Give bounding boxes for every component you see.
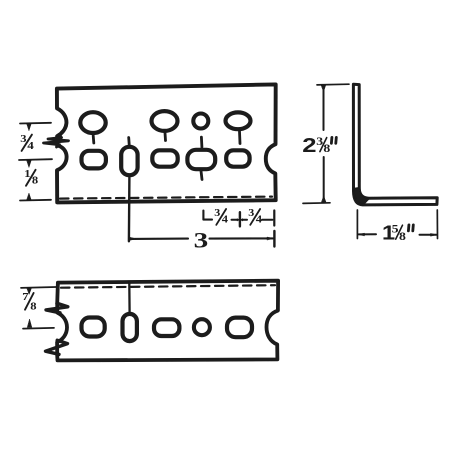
dimension 2-3/8 bottom tick: [322, 196, 327, 202]
centreline hole A3 to B4: [200, 137, 203, 147]
dimension 3 right flare: [267, 237, 274, 240]
dimension 2-3/8 bottom extension line: [303, 202, 330, 205]
tick on 7/8 top extension: [27, 288, 31, 294]
dimension 3/4+3/4 right segment and end bar: [262, 219, 273, 221]
angle profile (side view): [353, 84, 437, 205]
dimension 1-5/8 right flare: [431, 233, 437, 236]
svg-text:2: 2: [302, 133, 316, 156]
label 2-3/8": [302, 133, 330, 156]
bottom strip upper break spike: [46, 303, 68, 313]
label 3/4 (first, under plate): [214, 208, 228, 225]
angle profile bend (solid ink at corner): [354, 188, 370, 205]
hole B2 centreline down to dimension: [128, 177, 131, 241]
hole A1 (top row oval 1): [80, 112, 105, 133]
hole A2 tail: [164, 133, 167, 141]
dimension 2-3/8 top extension line: [317, 83, 349, 86]
extension line for 3/4 (upper): [20, 122, 51, 125]
hole B2 (vertical slot): [121, 147, 137, 175]
hole C2 centreline to top edge: [128, 283, 131, 312]
dimension 2-3/8 top tick: [321, 85, 325, 91]
dimension 1-5/8 line right segment: [420, 234, 437, 236]
svg-text:7: 7: [22, 291, 29, 303]
label 1/8 (left): [24, 168, 38, 186]
svg-text:8: 8: [323, 142, 330, 155]
dimension 3 right end bar: [273, 231, 275, 247]
top plate fold dashed line: [60, 197, 272, 199]
dimension 1-5/8 left flare: [358, 233, 364, 236]
hole B4 (bottom row obround 3): [187, 150, 215, 169]
dimension 2-3/8 line upper segment: [323, 86, 325, 130]
hole B5 (bottom row obround 4): [226, 150, 249, 166]
svg-text:8: 8: [30, 301, 37, 313]
svg-text:5: 5: [392, 223, 399, 236]
hole A4 tail: [238, 132, 241, 144]
label 7/8: [22, 291, 37, 312]
bottom strip fold dashed line: [61, 285, 275, 288]
label 3: [194, 228, 209, 253]
dimension 7/8 lower extension line: [23, 327, 54, 330]
label 1-5/8": [382, 221, 406, 244]
hole B2 centreline up: [127, 138, 130, 145]
dimension 1-5/8 line left segment: [359, 233, 377, 235]
svg-text:3: 3: [194, 228, 209, 253]
extension line for 3/4-1/8 (middle): [19, 158, 52, 161]
hole C2 (strip vertical slot): [123, 314, 137, 341]
dimension 3/4+3/4 centre tick: [239, 212, 241, 226]
dimension 1-5/8 left extension line: [356, 210, 358, 239]
tick on lower extension: [27, 193, 31, 200]
dimension 3/4+3/4 left L-tick: [203, 211, 212, 220]
extension line for 1/8 (lower, at bottom edge): [20, 199, 51, 202]
hole A3 (top row small circle): [193, 114, 208, 129]
label 3/4 (left): [20, 133, 34, 152]
hole B1 (bottom row obround 1): [82, 151, 106, 169]
bottom strip lower break spike: [46, 340, 68, 354]
dimension 3 line: [131, 238, 188, 240]
inch marks after 1-5/8: [408, 225, 413, 231]
inch marks after 2-3/8: [331, 137, 336, 143]
top plate left-edge break spike: [44, 135, 69, 148]
hole C4 (strip circle): [194, 319, 210, 335]
hole A1 tail: [92, 136, 95, 144]
dimension 2-3/8 line lower segment: [323, 157, 325, 202]
tick on upper 3/4 extension: [27, 124, 31, 131]
hole A4 (top row oval 3): [226, 112, 251, 129]
hole B4 tail: [201, 171, 202, 180]
dimension 1-5/8 right extension line: [436, 210, 438, 239]
hole C1 (strip obround 1): [82, 318, 105, 337]
label 3/4 (second, under plate): [248, 208, 262, 225]
hole C5 (strip obround 3): [227, 318, 252, 338]
hole C3 (strip obround 2): [154, 319, 179, 336]
dimension 7/8 top extension line: [21, 286, 56, 289]
dimension 3 left flare: [130, 237, 137, 240]
dimension 3/4+3/4 line segments: [232, 219, 248, 221]
svg-text:4: 4: [222, 215, 229, 226]
top plate outline: [57, 84, 276, 202]
tick on 7/8 lower extension: [27, 319, 31, 327]
hole B3 (bottom row obround 2): [152, 150, 177, 166]
svg-text:3: 3: [214, 208, 221, 219]
svg-text:3: 3: [248, 208, 255, 219]
bottom strip outline: [57, 281, 278, 361]
tick on middle extension: [27, 160, 31, 167]
hole A2 (top row oval 2): [152, 111, 178, 131]
